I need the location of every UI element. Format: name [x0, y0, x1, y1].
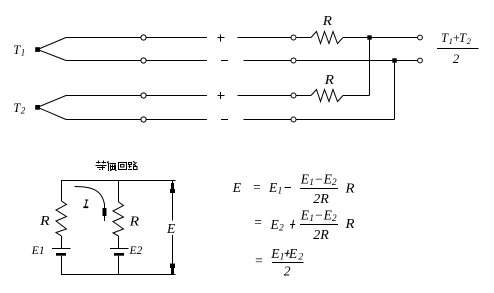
node junction row1 [367, 35, 371, 39]
terminal row2 left [141, 58, 146, 63]
svg-text:R: R [39, 214, 50, 229]
wire row1 middle segment [238, 37, 312, 39]
terminal row2 middle [291, 58, 296, 63]
wire row1 left segment [66, 37, 207, 39]
svg-text:R: R [324, 73, 335, 88]
svg-text:E2: E2 [129, 245, 143, 257]
label - row4 [221, 119, 228, 121]
terminal row1 middle [291, 35, 296, 40]
wire middle branch top [118, 181, 120, 203]
svg-text:E: E [270, 217, 280, 232]
svg-text:2: 2 [453, 51, 460, 66]
battery E2 [110, 249, 129, 256]
svg-text:2R: 2R [313, 228, 329, 243]
thermocouple T1 label [13, 43, 25, 58]
label R middle [128, 215, 139, 230]
wire T1 fan-out [38, 38, 67, 61]
svg-text:2: 2 [467, 36, 472, 46]
svg-text:E: E [166, 221, 176, 236]
wire top rail (equiv circuit) [61, 180, 176, 182]
label E (measure) [166, 221, 178, 237]
label equivalent-circuit title (kanji) [96, 161, 138, 171]
label minus eq1 [285, 187, 292, 189]
wire row2 middle segment [244, 60, 418, 62]
resistor R row1 [311, 32, 343, 44]
wire bottom rail (equiv circuit) [61, 274, 176, 276]
wire row2 left segment [66, 60, 207, 62]
svg-text:R: R [128, 215, 139, 230]
wire row3 left segment [66, 95, 207, 97]
terminal row3 left [141, 93, 146, 98]
equation line 2: = E2 + (E1-E2)/2R * R [253, 208, 355, 244]
label - row2 [221, 60, 228, 62]
wire row3 right segment [343, 95, 370, 97]
wire left branch top [61, 181, 63, 202]
terminal row2 right [418, 58, 423, 63]
wire left branch mid [61, 236, 63, 249]
svg-text:−: − [314, 208, 323, 223]
svg-text:−: − [314, 172, 323, 187]
current I arrow [75, 187, 107, 222]
svg-text:2: 2 [332, 214, 337, 224]
voltage E measure arrow [170, 181, 175, 275]
svg-text:2: 2 [21, 106, 26, 116]
svg-text:1: 1 [21, 48, 26, 58]
svg-text:1: 1 [278, 187, 283, 197]
svg-text:2: 2 [279, 224, 284, 234]
wire T2 fan-out [38, 96, 67, 120]
resistor R middle (vertical) [113, 202, 124, 236]
label output fraction (T1+T2)/2 [441, 31, 472, 66]
svg-text:R: R [322, 14, 333, 29]
label R left [39, 214, 50, 229]
label R row1 [322, 14, 333, 29]
terminal row1 right [418, 35, 423, 40]
svg-text:=: = [252, 180, 261, 195]
label + row3 [218, 92, 225, 99]
resistor R left (vertical) [56, 201, 67, 236]
svg-text:R: R [344, 217, 355, 232]
terminal row1 left [141, 35, 146, 40]
svg-text:E: E [232, 180, 242, 195]
equation line 1: E = E1 - (E1-E2)/2R * R [232, 180, 282, 197]
node junction row2 [392, 58, 396, 62]
wire middle branch mid [118, 236, 120, 249]
fraction bar eq1 [300, 188, 338, 190]
svg-text:2: 2 [284, 264, 291, 279]
wire row4 left segment [66, 119, 207, 121]
thermocouple T2 label [13, 101, 25, 116]
svg-text:E1: E1 [31, 245, 45, 257]
wire row4 to row2 vertical [394, 61, 396, 120]
battery E1 [52, 249, 71, 256]
label E1 [31, 245, 45, 257]
wire row3 to row1 vertical [369, 38, 371, 96]
wire row1 right segment [343, 37, 418, 39]
wire left branch bottom [61, 256, 63, 275]
svg-text:2: 2 [332, 178, 337, 188]
node T1 junction dot [35, 47, 40, 52]
svg-text:2R: 2R [313, 192, 329, 207]
label + row1 [218, 35, 225, 42]
fraction bar eq3 [272, 262, 304, 264]
label E2 [129, 245, 143, 257]
equation line 3: = (E1+E2)/2 [254, 246, 303, 279]
label + eq2 (slanted) [290, 220, 295, 229]
label R row3 [324, 73, 335, 88]
svg-text:E: E [268, 180, 278, 195]
terminal row4 left [141, 117, 146, 122]
wire row3 middle segment [238, 95, 312, 97]
terminal row4 middle [291, 117, 296, 122]
wire row4 middle segment [244, 119, 395, 121]
svg-text:=: = [253, 215, 262, 230]
svg-text:2: 2 [298, 253, 303, 263]
svg-text:R: R [344, 182, 355, 197]
terminal row3 middle [291, 93, 296, 98]
wire middle branch bottom [118, 256, 120, 275]
fraction bar output [437, 48, 479, 50]
label + eq3 (slanted) [285, 250, 290, 257]
label I [83, 200, 88, 208]
node T2 junction dot [35, 105, 40, 110]
svg-text:1: 1 [280, 253, 285, 263]
fraction bar eq2 [300, 224, 338, 226]
svg-text:=: = [254, 253, 263, 268]
resistor R row3 [311, 90, 343, 102]
